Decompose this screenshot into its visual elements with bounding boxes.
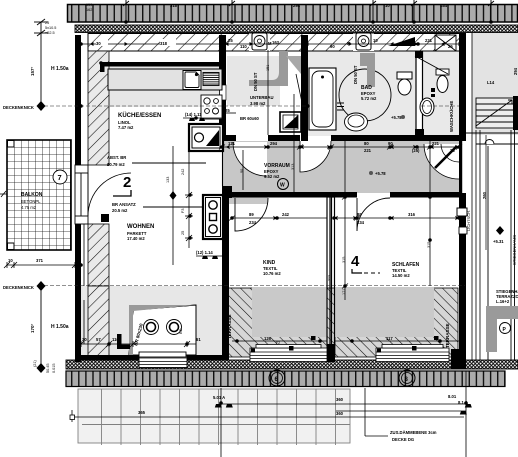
svg-text:L14: L14	[487, 80, 495, 85]
svg-text:H 1.50a: H 1.50a	[51, 66, 69, 72]
svg-text:BR ANSATZ: BR ANSATZ	[112, 202, 136, 207]
left wall inner chain	[83, 224, 85, 344]
crosshatch band top	[75, 25, 518, 33]
svg-text:234: 234	[249, 220, 257, 225]
svg-text:BR 60x60: BR 60x60	[240, 116, 260, 121]
horizontal wall below bad/unterbau	[215, 135, 460, 141]
svg-text:WOHNEN: WOHNEN	[127, 224, 154, 230]
svg-text:313: 313	[328, 275, 332, 281]
unterbau label	[250, 95, 274, 106]
svg-text:360: 360	[336, 397, 344, 402]
kitchen sink	[183, 71, 201, 90]
schlafen bottom dim row	[334, 340, 459, 342]
bad toilet	[397, 72, 412, 95]
terrasse rotated kind	[227, 314, 232, 339]
terrasse rotated right	[445, 323, 450, 348]
svg-text:(25): (25)	[412, 148, 420, 153]
wall unterbau/bad vertical	[301, 35, 308, 141]
svg-text:20.5 m2: 20.5 m2	[112, 208, 128, 213]
svg-text:294: 294	[513, 67, 518, 75]
balcony left tick	[0, 191, 7, 197]
gray duct left	[249, 51, 288, 86]
laundry toilet	[431, 69, 449, 97]
schlafen label	[392, 262, 420, 278]
bad floor gray	[308, 50, 416, 136]
svg-text:DECKE DG: DECKE DG	[392, 437, 414, 442]
svg-text:7.47 m2: 7.47 m2	[118, 125, 134, 130]
bad big circle	[339, 69, 391, 121]
wall kitchen/unterbau vertical	[219, 35, 226, 140]
kitchen floor gray	[109, 66, 222, 107]
schlafen right vertical chain	[344, 141, 346, 300]
right small bath floor gray	[421, 50, 460, 136]
svg-text:H 1.50a: H 1.50a	[51, 324, 69, 330]
vent unit right	[347, 33, 374, 51]
svg-text:117: 117	[386, 336, 393, 341]
svg-text:17.40 m2: 17.40 m2	[127, 236, 145, 241]
svg-text:W: W	[280, 183, 285, 189]
horizontal wall top of kind/schlafen	[232, 192, 460, 198]
tile grid bottom	[78, 389, 350, 445]
svg-text:90: 90	[240, 169, 244, 173]
kind terrace gray inset	[252, 287, 327, 337]
dormer window sill	[139, 352, 186, 357]
svg-text:365: 365	[138, 410, 146, 415]
svg-text:(21): (21)	[33, 360, 37, 367]
kind label	[263, 260, 281, 276]
svg-text:DN 50 ST: DN 50 ST	[253, 72, 258, 91]
svg-text:+5.78: +5.78	[391, 115, 402, 120]
svg-text:+5.78: +5.78	[375, 171, 386, 176]
dormer gray corner	[129, 305, 196, 355]
wall panel box right	[457, 208, 467, 234]
svg-text:KÜCHE/ESSEN: KÜCHE/ESSEN	[118, 112, 161, 119]
svg-text:7: 7	[58, 173, 62, 182]
kitchen top inner wall	[100, 62, 222, 72]
deckenknick dashed line lower	[44, 285, 465, 287]
svg-text:TERRASSE: TERRASSE	[227, 314, 232, 339]
svg-text:F2: F2	[276, 341, 280, 345]
kasten rotated schlafen	[466, 210, 471, 231]
stiegenhaus label	[496, 289, 518, 304]
svg-text:F3: F3	[181, 209, 185, 213]
svg-text:260: 260	[482, 191, 487, 199]
bathtub	[309, 68, 336, 130]
svg-text:(14) 1.11: (14) 1.11	[185, 112, 202, 117]
svg-text:50.45: 50.45	[46, 363, 50, 373]
svg-text:STIEGENHAUS: STIEGENHAUS	[512, 235, 517, 265]
svg-text:157°: 157°	[30, 66, 35, 76]
unterbau shower	[240, 50, 301, 135]
svg-text:TERRASSE: TERRASSE	[445, 323, 450, 348]
black triangle top right	[388, 37, 415, 46]
x-box shaft	[435, 35, 456, 51]
kitchen drainer hatch	[203, 73, 219, 86]
svg-text:25: 25	[225, 108, 230, 113]
svg-text:90: 90	[330, 44, 335, 49]
svg-text:4.75 m2: 4.75 m2	[21, 205, 37, 210]
kitchen hob small	[201, 95, 222, 119]
svg-text:10: 10	[8, 258, 13, 263]
svg-text:80: 80	[364, 141, 369, 146]
svg-text:133: 133	[166, 177, 170, 183]
svg-text:2: 2	[123, 174, 131, 191]
svg-text:WASCHKÜCHE: WASCHKÜCHE	[449, 101, 454, 132]
wall wohnen/kind vertical	[222, 141, 232, 360]
stair right black edge	[513, 96, 518, 130]
svg-text:126: 126	[264, 336, 272, 341]
abst labels wohnen	[101, 146, 206, 265]
svg-text:221: 221	[432, 141, 440, 146]
svg-text:171: 171	[342, 289, 346, 295]
stair landing line + halfround	[466, 130, 518, 360]
unterbau floor gray upper	[227, 56, 280, 106]
balcony door swing arc	[88, 173, 131, 216]
svg-text:0.015: 0.015	[52, 363, 56, 373]
svg-text:25: 25	[448, 44, 453, 49]
circle 6 on bottom band	[269, 370, 285, 386]
svg-text:3.98 m2: 3.98 m2	[250, 101, 266, 106]
left outer wall upper	[75, 35, 81, 165]
svg-text:25: 25	[45, 21, 49, 25]
kind schlafen dim row	[232, 217, 459, 219]
top wall hatched band	[88, 34, 465, 52]
stiegenhaus gray L	[486, 306, 518, 352]
svg-text:162: 162	[86, 8, 92, 12]
balcony door opening	[75, 165, 88, 224]
schlafen terrace gray inset	[334, 287, 434, 337]
circle 8 on bottom band	[399, 370, 415, 386]
svg-text:234: 234	[357, 220, 365, 225]
svg-text:10: 10	[385, 3, 390, 8]
stair treads	[476, 98, 518, 128]
svg-text:318: 318	[160, 41, 168, 46]
svg-text:4: 4	[351, 253, 360, 270]
svg-text:=52.5: =52.5	[45, 31, 55, 35]
svg-text:221: 221	[425, 38, 433, 43]
roof band top	[68, 5, 518, 23]
+5.31 stair	[493, 226, 504, 244]
circle P	[500, 323, 511, 334]
svg-text:184: 184	[440, 3, 448, 8]
svg-text:170°: 170°	[30, 323, 35, 333]
svg-text:UNTERBAU: UNTERBAU	[250, 95, 274, 100]
vorraum label	[264, 163, 290, 179]
schlafen window sill	[376, 336, 449, 362]
svg-text:ZUS.DÄMMEBENE 3cm: ZUS.DÄMMEBENE 3cm	[390, 430, 437, 435]
svg-text:316: 316	[408, 212, 416, 217]
vorraum gray	[222, 141, 463, 204]
numeral 4	[351, 253, 380, 273]
left margin chain lower	[40, 286, 42, 368]
+5.78 bad	[391, 115, 405, 120]
schlafen vert line label	[328, 275, 347, 295]
svg-text:25: 25	[228, 38, 233, 43]
stairwell floor gray	[472, 33, 518, 135]
bad/wc divider partition	[415, 51, 424, 136]
schlafen right chain	[429, 141, 431, 286]
vorraum vertical 315	[240, 94, 295, 193]
door arc white cut kitchen->vorraum	[233, 142, 267, 176]
svg-text:151: 151	[266, 65, 270, 71]
right margin rotated dim	[512, 67, 518, 265]
svg-text:25: 25	[450, 148, 455, 153]
left inner hatched wall	[88, 51, 109, 360]
gray wedge vorraum top left	[286, 56, 304, 112]
kitchen counter	[108, 69, 222, 90]
wohnen kind vertical chain	[185, 150, 193, 248]
svg-text:5.72 m2: 5.72 m2	[361, 96, 377, 101]
svg-text:ABST. BR: ABST. BR	[107, 155, 126, 160]
rotated duct text left	[253, 72, 258, 91]
waschkueche rotated	[449, 101, 454, 132]
svg-text:30: 30	[82, 337, 87, 342]
balcony slab grid	[7, 140, 71, 250]
svg-text:DN 50 ST: DN 50 ST	[353, 65, 358, 84]
L14 stair	[487, 80, 495, 85]
svg-text:(12) 1.14: (12) 1.14	[196, 250, 213, 255]
wohnen bottom dim row	[75, 341, 196, 347]
svg-text:BD: BD	[178, 328, 183, 334]
crosshatch band bottom	[66, 360, 518, 369]
svg-text:30: 30	[96, 41, 101, 46]
vorraum dim row	[222, 146, 462, 148]
gray duct right	[360, 53, 375, 87]
rotated duct text right	[353, 65, 358, 84]
balcony labels	[21, 192, 43, 210]
svg-text:315: 315	[427, 242, 431, 248]
bottom outer wall line	[81, 355, 466, 368]
svg-text:110: 110	[240, 44, 247, 49]
schlafen terrace hatched	[335, 288, 458, 357]
numeral 2	[113, 174, 131, 196]
(12) 1.14 label	[196, 250, 222, 259]
kitchen dim row	[183, 108, 236, 121]
svg-text:5.01 A: 5.01 A	[213, 395, 225, 400]
deckenknick label upper	[3, 101, 46, 111]
svg-text:10: 10	[373, 38, 378, 43]
deckenknick label lower	[3, 281, 56, 373]
svg-text:DECKENKNICK: DECKENKNICK	[3, 105, 34, 110]
kind bottom dim row	[232, 340, 327, 342]
svg-text:20.79 m2: 20.79 m2	[107, 162, 125, 167]
svg-text:61: 61	[196, 337, 201, 342]
circle W	[278, 179, 289, 190]
balcony corner posts	[8, 141, 15, 250]
wohnen bottom gray	[81, 286, 222, 360]
flue block 3 circles	[203, 195, 223, 239]
svg-text:371: 371	[36, 258, 44, 263]
door arc white cut entrance	[424, 144, 459, 179]
svg-text:242: 242	[181, 169, 185, 175]
stair 260 rotated	[482, 135, 487, 250]
svg-text:DECKENKNICK: DECKENKNICK	[3, 285, 34, 290]
bad washbasin	[345, 113, 368, 131]
svg-text:10.76 m2: 10.76 m2	[263, 271, 281, 276]
svg-text:318: 318	[170, 3, 178, 8]
svg-text:14.50 m2: 14.50 m2	[392, 273, 410, 278]
kitchen oven box	[189, 124, 223, 151]
svg-text:150: 150	[86, 3, 92, 7]
schlafen door arc	[357, 198, 390, 231]
left outer wall lower	[75, 224, 81, 362]
balcony bottom dim row	[4, 262, 81, 268]
svg-text:BETONPL: BETONPL	[21, 199, 41, 204]
deckenknick dashed line upper	[44, 105, 459, 107]
laundry washbasin	[420, 98, 434, 116]
svg-text:9.52 m2: 9.52 m2	[264, 174, 280, 179]
black L furniture	[117, 334, 130, 349]
dormer rotated label	[133, 322, 144, 346]
svg-text:315: 315	[342, 257, 346, 263]
door arc white cut bad->vorraum	[300, 141, 331, 172]
svg-text:8.01: 8.01	[448, 394, 457, 399]
bad towel rail	[337, 103, 344, 110]
circle 7	[53, 170, 67, 184]
right lower corner black	[451, 349, 466, 369]
svg-text:221: 221	[364, 148, 372, 153]
svg-text:110: 110	[112, 337, 119, 342]
right outer wall	[459, 33, 466, 362]
kind window sill	[250, 336, 327, 362]
svg-text:+5.31: +5.31	[493, 239, 504, 244]
vent unit left	[249, 33, 272, 51]
laundry diagonal slope line	[415, 56, 448, 74]
+5.78 vorraum	[369, 171, 386, 176]
svg-text:360: 360	[336, 411, 344, 416]
top wall dim row	[81, 43, 462, 45]
wohnen label	[127, 224, 154, 241]
svg-text:BALKON: BALKON	[21, 192, 43, 198]
dormer circles seats	[144, 320, 184, 335]
svg-text:25: 25	[181, 231, 185, 235]
kind door arc	[235, 198, 268, 231]
dormer white trapezoid	[129, 305, 196, 355]
stair thin rails	[472, 33, 480, 360]
svg-text:294: 294	[270, 141, 278, 146]
wall kind/schlafen vertical	[327, 197, 336, 362]
svg-text:L.16+2: L.16+2	[496, 299, 510, 304]
kind terrace hatched	[223, 288, 335, 357]
svg-text:5x10.5: 5x10.5	[45, 26, 56, 30]
svg-text:294: 294	[293, 3, 301, 8]
svg-text:57: 57	[96, 337, 101, 342]
bad label	[361, 85, 377, 101]
left margin chain upper	[34, 19, 48, 106]
svg-text:121: 121	[228, 141, 236, 146]
svg-text:163: 163	[272, 40, 280, 45]
roof band bottom	[66, 371, 505, 387]
svg-text:313: 313	[291, 164, 295, 170]
svg-text:242: 242	[282, 212, 290, 217]
kueche label	[118, 112, 161, 130]
svg-text:89: 89	[249, 212, 254, 217]
